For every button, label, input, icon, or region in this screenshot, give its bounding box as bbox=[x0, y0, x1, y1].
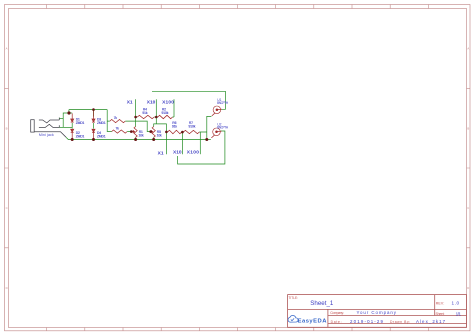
svg-text:10k: 10k bbox=[139, 133, 144, 137]
potentiometer R1 bbox=[131, 127, 137, 138]
wire jack vertical to node A bbox=[63, 113, 69, 127]
svg-text:TITLE:: TITLE: bbox=[288, 296, 298, 300]
resistor R2 bbox=[158, 115, 173, 118]
svg-text:1/1: 1/1 bbox=[456, 311, 462, 316]
wire X10 tap vertical bbox=[155, 99, 157, 124]
svg-text:Sheet_1: Sheet_1 bbox=[310, 300, 334, 307]
svg-text:Sheet:: Sheet: bbox=[436, 312, 445, 316]
junction rail D4 bbox=[92, 138, 95, 141]
svg-text:ZMD1: ZMD1 bbox=[97, 134, 106, 138]
wire to diode mid node bbox=[63, 126, 72, 128]
svg-text:X10: X10 bbox=[173, 150, 182, 156]
diode D3 bbox=[92, 111, 95, 122]
svg-text:BNCPTH: BNCPTH bbox=[217, 126, 229, 130]
svg-text:X1: X1 bbox=[158, 150, 164, 156]
wire D3 column top bbox=[93, 110, 95, 117]
wire D1-D2 mid bbox=[71, 123, 73, 129]
wire U1 shield drop bbox=[207, 116, 212, 139]
svg-text:7k: 7k bbox=[114, 116, 118, 120]
diode D4 bbox=[92, 129, 95, 139]
svg-text:B: B bbox=[467, 126, 469, 130]
svg-text:10k: 10k bbox=[157, 133, 162, 137]
svg-text:910k: 910k bbox=[162, 111, 169, 115]
svg-text:910k: 910k bbox=[189, 125, 196, 129]
junction R1 wiper bbox=[130, 130, 133, 133]
wire jack tip stub bbox=[59, 117, 63, 119]
wire bottom output loop bbox=[178, 131, 225, 164]
wire node A up bbox=[68, 110, 70, 113]
wire X100 tap vertical bbox=[173, 99, 175, 117]
wire X10 bottom stub bbox=[181, 132, 183, 154]
svg-text:D: D bbox=[6, 286, 8, 290]
junction rail right bbox=[205, 138, 208, 141]
svg-text:X100: X100 bbox=[162, 100, 174, 106]
svg-text:D: D bbox=[467, 286, 469, 290]
wire X1 tap vertical bbox=[135, 99, 137, 126]
wire 7k bottom leads bbox=[107, 130, 131, 132]
svg-text:X1: X1 bbox=[127, 100, 133, 106]
junction top rail D3 bbox=[92, 108, 95, 111]
resistor R7 bbox=[183, 130, 199, 133]
svg-text:1.0: 1.0 bbox=[452, 301, 460, 306]
svg-text:2019-01-29: 2019-01-29 bbox=[350, 319, 384, 324]
junction R5 wiper bbox=[149, 130, 152, 133]
svg-text:C: C bbox=[467, 206, 469, 210]
svg-text:C: C bbox=[6, 206, 8, 210]
potentiometer R5 bbox=[151, 127, 156, 138]
junction R6 R7 bbox=[181, 131, 184, 134]
resistor 7k bottom bbox=[112, 130, 128, 133]
wire 7k top leads bbox=[107, 121, 151, 131]
diode D2 bbox=[71, 129, 74, 139]
diode D1 bbox=[71, 113, 74, 122]
svg-text:91k: 91k bbox=[142, 111, 147, 115]
wire pot bottoms bbox=[136, 137, 154, 139]
svg-text:ZMD1: ZMD1 bbox=[76, 134, 85, 138]
resistor R6 bbox=[168, 130, 182, 133]
junction X1 node bbox=[134, 116, 137, 119]
svg-text:EasyEDA: EasyEDA bbox=[298, 318, 328, 324]
svg-text:X100: X100 bbox=[187, 150, 200, 156]
svg-text:91k: 91k bbox=[172, 125, 177, 129]
wire top rail bbox=[69, 109, 107, 111]
junction R6 left bbox=[165, 131, 168, 134]
wire R6 R7 leads bbox=[166, 131, 206, 133]
EasyEDA logo bbox=[288, 315, 327, 324]
wire jack ring stub bbox=[59, 126, 63, 128]
wire X100 bottom stub bbox=[199, 132, 201, 154]
junction rail D2 bbox=[71, 138, 74, 141]
wire node A to D1 top bbox=[69, 112, 72, 114]
svg-text:A: A bbox=[467, 47, 469, 51]
svg-text:Company:: Company: bbox=[330, 311, 344, 315]
svg-text:Alex_2k17: Alex_2k17 bbox=[416, 319, 446, 324]
svg-text:Date:: Date: bbox=[331, 320, 342, 324]
svg-text:X10: X10 bbox=[147, 100, 156, 106]
connector J1 Mini jack bbox=[31, 118, 66, 138]
svg-text:A: A bbox=[6, 47, 8, 51]
wire input feed vertical bbox=[106, 110, 108, 132]
wire bottom rail bbox=[66, 137, 211, 139]
wire X1 bottom stub bbox=[165, 132, 167, 154]
resistor R4 bbox=[137, 115, 154, 118]
svg-text:B: B bbox=[6, 126, 8, 130]
wire top output loop bbox=[152, 91, 225, 109]
resistor 7k top bbox=[110, 120, 126, 123]
wire pot R5 top route bbox=[154, 124, 167, 132]
svg-text:7k: 7k bbox=[116, 126, 120, 130]
junction rail R5 bbox=[152, 138, 155, 141]
junction node A bbox=[67, 111, 70, 114]
svg-text:ZMD1: ZMD1 bbox=[76, 121, 85, 125]
svg-text:REV:: REV: bbox=[436, 301, 445, 305]
connector U2 BNC bbox=[211, 128, 221, 138]
wire D3-D4 mid bbox=[93, 123, 95, 129]
svg-text:ZMD1: ZMD1 bbox=[97, 121, 106, 125]
wire R4 leads bbox=[136, 116, 174, 118]
junction rail R1 bbox=[134, 138, 137, 141]
connector U1 BNC bbox=[212, 106, 222, 116]
svg-text:BNCPTH: BNCPTH bbox=[217, 101, 229, 105]
svg-text:Drawn By:: Drawn By: bbox=[390, 320, 410, 324]
svg-text:Mini jack: Mini jack bbox=[39, 133, 54, 137]
junction X10 node bbox=[155, 116, 158, 119]
svg-text:Your Company: Your Company bbox=[357, 310, 397, 315]
